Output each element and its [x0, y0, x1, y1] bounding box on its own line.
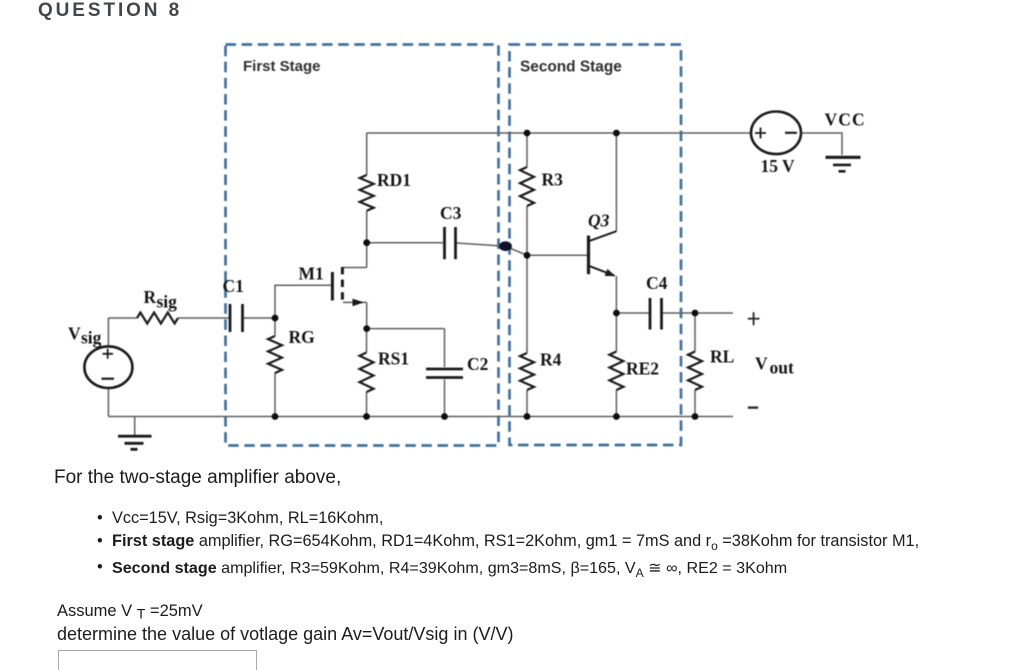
- resistor RG: [268, 327, 315, 373]
- wire: [108, 317, 137, 319]
- wire: [275, 285, 331, 318]
- svg-text:15 V: 15 V: [761, 156, 796, 176]
- resistor RL: [688, 347, 734, 391]
- wire: [694, 390, 696, 417]
- node: [692, 310, 699, 317]
- svg-text:M1: M1: [299, 264, 324, 284]
- svg-text:VCC: VCC: [825, 110, 866, 130]
- wire: [108, 416, 733, 418]
- label - (output): [748, 406, 758, 408]
- source VCC: [751, 110, 866, 177]
- node: [524, 413, 531, 420]
- node: [524, 252, 531, 259]
- wire: [801, 133, 842, 155]
- node: [613, 130, 620, 137]
- wire: [343, 267, 367, 269]
- node: [272, 413, 279, 420]
- wire: [616, 312, 649, 314]
- svg-text:Second Stage: Second Stage: [520, 59, 622, 76]
- answer input box: [58, 650, 257, 670]
- First Stage box: [226, 45, 499, 446]
- node: [272, 315, 279, 322]
- wire: [615, 133, 617, 231]
- capacitor C1: [223, 276, 244, 332]
- svg-text:RD1: RD1: [377, 170, 411, 190]
- wire: [527, 254, 587, 256]
- svg-text:out: out: [770, 358, 794, 378]
- wire: [107, 388, 109, 417]
- capacitor C3: [440, 203, 462, 259]
- svg-text:R: R: [144, 287, 157, 307]
- wire: [274, 318, 276, 336]
- wire: [366, 133, 368, 175]
- wire: [615, 390, 617, 417]
- wire: [366, 392, 368, 417]
- resistor R3: [520, 167, 563, 206]
- Second Stage box: [510, 45, 682, 446]
- svg-text:V: V: [68, 324, 81, 344]
- resistor RD1: [360, 170, 411, 211]
- wire: [367, 132, 751, 134]
- node: [692, 413, 699, 420]
- wire: [107, 318, 109, 347]
- svg-text:C2: C2: [467, 354, 488, 374]
- node: [613, 310, 620, 317]
- node: [524, 130, 531, 137]
- svg-text:C4: C4: [646, 273, 668, 293]
- wire: [615, 276, 617, 352]
- svg-text:RE2: RE2: [626, 359, 659, 379]
- MOSFET M1: [299, 264, 365, 307]
- wire: [694, 313, 696, 352]
- wire: [178, 317, 229, 319]
- ground (VCC): [826, 157, 861, 171]
- wire: [457, 243, 528, 255]
- svg-text:sig: sig: [81, 328, 102, 348]
- wire: [444, 329, 446, 367]
- wire: [367, 328, 445, 330]
- label + (output): [748, 312, 760, 325]
- svg-text:RG: RG: [289, 327, 316, 347]
- wire: [343, 301, 367, 303]
- svg-text:sig: sig: [157, 292, 178, 312]
- resistor RS1: [360, 349, 410, 393]
- resistor RE2: [609, 352, 659, 391]
- svg-text:V: V: [755, 354, 768, 374]
- wire: [526, 390, 528, 417]
- svg-text:R4: R4: [540, 350, 562, 370]
- node: [363, 239, 370, 246]
- wire: [366, 302, 368, 328]
- transistor Q3: [588, 211, 616, 277]
- svg-text:RL: RL: [710, 347, 734, 367]
- svg-text:Q3: Q3: [588, 211, 610, 231]
- resistor R4: [520, 350, 562, 391]
- label Vout: [755, 354, 794, 378]
- svg-text:C3: C3: [440, 203, 462, 223]
- resistor Rsig: [137, 287, 178, 324]
- wire: [366, 211, 368, 268]
- wire: [367, 242, 443, 244]
- wire: [134, 417, 136, 436]
- node: [613, 413, 620, 420]
- capacitor C4: [646, 273, 668, 330]
- wire: [662, 312, 733, 314]
- ground (left): [118, 436, 152, 449]
- svg-text:RS1: RS1: [378, 349, 409, 369]
- svg-text:R3: R3: [542, 170, 564, 190]
- node: [363, 325, 370, 332]
- wire: [274, 373, 276, 417]
- svg-text:C1: C1: [223, 276, 244, 296]
- wire: [526, 133, 528, 167]
- wire: [366, 329, 368, 353]
- wire: [243, 317, 275, 319]
- node (bold junction): [499, 241, 512, 251]
- source Vsig: [68, 324, 132, 389]
- capacitor C2: [426, 354, 488, 378]
- node: [441, 413, 448, 420]
- node: [363, 413, 370, 420]
- svg-text:First Stage: First Stage: [243, 58, 321, 75]
- wire: [444, 380, 446, 417]
- wire: [526, 206, 528, 353]
